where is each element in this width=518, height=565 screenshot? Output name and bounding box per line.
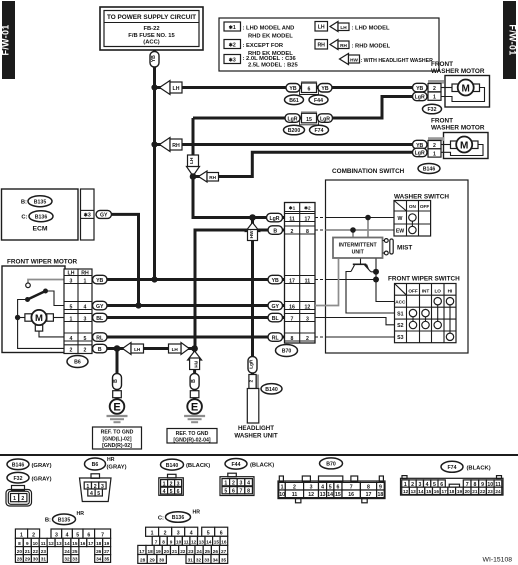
- wire RH row to front washer motor 2: [155, 143, 442, 146]
- wire YB row to front washer motor 1: [155, 86, 442, 89]
- svg-text:REF. TO GND: REF. TO GND: [176, 431, 209, 437]
- svg-text:1: 1: [70, 316, 73, 322]
- connector oval B146 (washer motor 2): [418, 164, 440, 174]
- arrow LH pointing left on ground row: [123, 343, 144, 355]
- svg-text:LH: LH: [172, 347, 179, 352]
- svg-text:FB-22: FB-22: [143, 26, 159, 32]
- svg-text:3: 3: [240, 481, 243, 487]
- svg-text:OFF: OFF: [408, 288, 418, 293]
- svg-text:OFF: OFF: [420, 204, 430, 209]
- svg-text:16: 16: [221, 540, 227, 545]
- connector drawing F32/B146 2-pin: [6, 486, 32, 507]
- connector oval B200: [284, 125, 305, 135]
- pin box right ground: [190, 391, 199, 398]
- svg-text:LgR: LgR: [320, 116, 330, 122]
- arrow RH at second row: [160, 138, 171, 152]
- page corner tab left F/W-01: [1, 1, 15, 79]
- svg-text:HEADLIGHT: HEADLIGHT: [238, 425, 274, 432]
- svg-text:4: 4: [84, 304, 87, 310]
- svg-text:LO: LO: [434, 288, 441, 293]
- wiper park switch YB stub: [28, 280, 64, 284]
- svg-text:M: M: [35, 313, 43, 324]
- svg-text:RH: RH: [81, 270, 89, 276]
- svg-text:FRONT: FRONT: [431, 118, 453, 125]
- washer switch table: [394, 194, 449, 237]
- svg-text:B6: B6: [92, 462, 99, 468]
- svg-text:27: 27: [104, 549, 110, 554]
- junction transistor emitter: [373, 269, 379, 275]
- svg-text:6: 6: [177, 489, 180, 495]
- combination switch wire labels: [267, 213, 283, 222]
- connector oval F32 (gray): [7, 472, 29, 483]
- svg-text:1: 1: [224, 481, 227, 487]
- svg-text:HI: HI: [448, 288, 453, 293]
- svg-text:LgR: LgR: [249, 359, 254, 369]
- svg-text:20: 20: [164, 549, 170, 554]
- svg-text:31: 31: [41, 557, 47, 562]
- junction at RH arrow: [151, 141, 157, 147]
- svg-text:25: 25: [205, 549, 211, 554]
- svg-text:30: 30: [33, 557, 39, 562]
- svg-text:B: B: [273, 228, 277, 234]
- svg-text:WASHER MOTOR: WASHER MOTOR: [431, 68, 485, 75]
- svg-text:4: 4: [163, 489, 166, 495]
- washer motor 2 pins YB 2 / LgR 1: [413, 137, 445, 157]
- svg-text:2: 2: [21, 496, 24, 502]
- svg-text:29: 29: [149, 558, 155, 563]
- svg-text:15: 15: [335, 492, 341, 498]
- svg-text:LH: LH: [173, 86, 180, 92]
- svg-text:2: 2: [249, 379, 254, 382]
- svg-text:2: 2: [84, 348, 87, 354]
- front wiper switch table: [388, 276, 460, 343]
- svg-text:: 2.0L MODEL : C36: : 2.0L MODEL : C36: [243, 56, 297, 62]
- washer motor 1 pins YB 2 / LgR 1: [413, 80, 445, 101]
- power supply block FB-22 F/B FUSE NO.15 (ACC): [100, 7, 203, 50]
- svg-text:F44: F44: [232, 462, 241, 468]
- ground symbol E right: [184, 399, 205, 422]
- arrow RH pointing left at junction: [199, 171, 219, 182]
- svg-text:S2: S2: [397, 323, 403, 329]
- svg-text:F32: F32: [14, 476, 23, 482]
- svg-text:B136: B136: [35, 214, 48, 220]
- wire collector to ACC row: [376, 259, 395, 302]
- svg-text:F/W-01: F/W-01: [508, 24, 518, 55]
- svg-text:7: 7: [101, 533, 104, 539]
- svg-text:B146: B146: [12, 463, 25, 469]
- svg-text:3: 3: [177, 531, 180, 537]
- wire junction down and right to combination switch LgR pin: [193, 177, 285, 218]
- svg-text:C:: C:: [21, 215, 27, 221]
- svg-text:ECM: ECM: [32, 226, 47, 233]
- svg-text:35: 35: [104, 557, 110, 562]
- svg-text:S1: S1: [397, 311, 403, 317]
- svg-text:7: 7: [240, 489, 243, 495]
- svg-text:COMBINATION SWITCH: COMBINATION SWITCH: [332, 168, 405, 175]
- svg-text:ACC: ACC: [395, 299, 406, 304]
- svg-text:B61: B61: [289, 98, 299, 104]
- headlight washer unit box: [247, 389, 258, 424]
- wire right ground drop: [193, 349, 196, 401]
- svg-text:16: 16: [434, 489, 440, 494]
- svg-text:MIST: MIST: [397, 245, 412, 252]
- svg-text:23: 23: [188, 549, 194, 554]
- svg-text:HR: HR: [193, 510, 201, 516]
- svg-text:7: 7: [291, 316, 294, 322]
- svg-text:LH: LH: [68, 270, 75, 276]
- svg-text:2: 2: [32, 533, 35, 539]
- svg-text:17: 17: [305, 216, 311, 222]
- svg-text:FRONT WIPER MOTOR: FRONT WIPER MOTOR: [7, 259, 78, 266]
- junction LgR LH/RH: [190, 173, 197, 180]
- pin box headlight washer with number 2: [249, 375, 259, 389]
- svg-text:LH: LH: [340, 25, 347, 30]
- legend mark *3: [224, 55, 241, 64]
- svg-text:B:: B:: [45, 518, 51, 524]
- svg-text:5: 5: [170, 489, 173, 495]
- svg-text:14: 14: [64, 541, 70, 546]
- MIST switch: [383, 239, 413, 255]
- inline connector YB 6 YB (B61/F44): [286, 81, 332, 95]
- legend LH connector symbol: [315, 22, 328, 32]
- svg-text:35: 35: [221, 558, 227, 563]
- wire ECM GY to GY row: [112, 214, 139, 305]
- svg-text:BL: BL: [96, 316, 104, 322]
- label YB on bus: [150, 52, 159, 68]
- svg-text:: LHD MODEL AND: : LHD MODEL AND: [243, 26, 295, 32]
- svg-text:8: 8: [291, 336, 294, 342]
- arrow RH pointing up below right junction: [188, 351, 202, 370]
- svg-text:3: 3: [84, 316, 87, 322]
- front washer motor 1 box: [441, 76, 490, 108]
- svg-text:RHD EK MODEL: RHD EK MODEL: [248, 34, 293, 40]
- svg-text:6: 6: [87, 533, 90, 539]
- svg-text:15: 15: [72, 541, 78, 546]
- connector oval B6 (gray) HR: [85, 458, 106, 470]
- svg-text:LH: LH: [134, 347, 141, 352]
- svg-text:[GND(L)-02]: [GND(L)-02]: [102, 436, 131, 442]
- svg-text:YB: YB: [151, 55, 157, 62]
- junction ground bus left: [114, 345, 121, 352]
- combination switch box: [326, 180, 469, 353]
- svg-text:[GND(R)-02-04]: [GND(R)-02-04]: [173, 438, 210, 444]
- svg-text:8: 8: [247, 489, 250, 495]
- svg-text:18: 18: [96, 541, 102, 546]
- svg-text:11: 11: [41, 541, 46, 546]
- arrow HW pointing up below junction: [246, 223, 260, 241]
- svg-text:BL: BL: [272, 316, 280, 322]
- svg-text:M: M: [462, 83, 470, 94]
- svg-text:2: 2: [433, 86, 436, 92]
- svg-text:28: 28: [17, 557, 23, 562]
- svg-text:26: 26: [213, 549, 219, 554]
- svg-text:5: 5: [224, 489, 227, 495]
- svg-text:33: 33: [204, 558, 210, 563]
- svg-text:6: 6: [308, 87, 311, 93]
- svg-text:14: 14: [418, 489, 424, 494]
- wire headlight washer branch: [251, 218, 254, 391]
- svg-text:10: 10: [279, 492, 285, 498]
- svg-text:3: 3: [306, 316, 309, 322]
- svg-text:19: 19: [104, 541, 110, 546]
- svg-text:[GND(R)-02]: [GND(R)-02]: [102, 443, 132, 449]
- svg-text:✱1: ✱1: [289, 206, 296, 211]
- transistor in combination switch: [346, 259, 395, 314]
- svg-text:10: 10: [176, 540, 182, 545]
- svg-text:1: 1: [433, 151, 436, 157]
- legend mark *1: [224, 22, 241, 31]
- svg-text:✱2: ✱2: [229, 43, 236, 49]
- connector oval F74: [310, 125, 329, 135]
- connector oval F44: [309, 95, 328, 105]
- svg-text:1: 1: [84, 278, 87, 284]
- wire RL pin to S3: [315, 336, 395, 338]
- svg-text:13: 13: [320, 492, 326, 498]
- svg-text:F32: F32: [428, 107, 437, 113]
- svg-text:: WITH HEADLIGHT WASHER: : WITH HEADLIGHT WASHER: [361, 58, 434, 64]
- connector oval B61: [285, 95, 304, 105]
- wire LgR row B200/F74 to washer motor 1 pin 1: [193, 97, 441, 119]
- ref to gnd box right: [167, 429, 217, 444]
- svg-text:4: 4: [70, 336, 73, 342]
- wire YB pin to transistor node: [315, 277, 379, 283]
- label GY at ECM pin: [96, 210, 112, 218]
- svg-text:LgR: LgR: [415, 95, 425, 101]
- svg-text:18: 18: [378, 492, 384, 498]
- legend RH connector symbol: [315, 40, 328, 50]
- svg-text:WASHER SWITCH: WASHER SWITCH: [394, 194, 449, 201]
- svg-text:M: M: [460, 140, 468, 151]
- svg-text:F74: F74: [315, 128, 324, 134]
- svg-text:2: 2: [306, 336, 309, 342]
- svg-text:1: 1: [433, 95, 436, 101]
- svg-text:INTERMITTENT: INTERMITTENT: [339, 242, 378, 248]
- svg-text:B6: B6: [74, 360, 81, 366]
- svg-text:RH: RH: [317, 43, 325, 49]
- svg-text:6: 6: [220, 531, 223, 537]
- svg-text:LH: LH: [189, 157, 194, 164]
- svg-text:5: 5: [76, 533, 79, 539]
- svg-text:21: 21: [25, 549, 31, 554]
- ground symbol E left: [107, 399, 128, 422]
- wire LgR pin to washer switch W: [315, 215, 395, 238]
- svg-text:F44: F44: [314, 98, 323, 104]
- svg-text:HW: HW: [350, 57, 358, 62]
- svg-text:LgR: LgR: [269, 216, 279, 222]
- svg-text:✱1: ✱1: [229, 25, 236, 31]
- svg-text:(BLACK): (BLACK): [467, 466, 491, 472]
- svg-text:11: 11: [292, 492, 298, 498]
- connector oval F74 (black): [441, 461, 463, 472]
- svg-text:F/B FUSE NO. 15: F/B FUSE NO. 15: [128, 33, 175, 39]
- svg-text:B70: B70: [326, 462, 336, 468]
- svg-text:21: 21: [172, 549, 178, 554]
- connector oval B140 (black): [161, 459, 184, 470]
- svg-text:3: 3: [55, 533, 58, 539]
- svg-text:12: 12: [308, 492, 314, 498]
- svg-text:✱3: ✱3: [84, 212, 91, 218]
- svg-text:B:: B:: [21, 200, 27, 206]
- svg-text:12: 12: [191, 540, 197, 545]
- svg-text:33: 33: [72, 557, 78, 562]
- svg-text:B: B: [98, 347, 102, 353]
- svg-text:2: 2: [232, 481, 235, 487]
- svg-text:GY: GY: [271, 304, 279, 310]
- connector oval B146 (gray): [7, 459, 29, 470]
- svg-text:✱2: ✱2: [304, 206, 311, 211]
- junction ground bus right: [191, 345, 198, 352]
- wiper motor connector strip LH/RH: [64, 269, 92, 354]
- svg-text:GY: GY: [100, 213, 108, 219]
- svg-text:UNIT: UNIT: [352, 250, 365, 256]
- svg-text:7: 7: [155, 540, 158, 545]
- svg-text:B135: B135: [34, 199, 47, 205]
- svg-text:26: 26: [96, 549, 102, 554]
- connector oval B70 (combination switch): [276, 345, 298, 357]
- junction at LH arrow: [151, 84, 157, 90]
- svg-text:10: 10: [33, 541, 39, 546]
- svg-text:24: 24: [64, 549, 70, 554]
- label B rotated right ground: [190, 374, 199, 390]
- svg-text:5: 5: [84, 336, 87, 342]
- svg-text:17: 17: [139, 549, 145, 554]
- svg-text:19: 19: [457, 489, 463, 494]
- svg-text:32: 32: [64, 557, 70, 562]
- svg-text:16: 16: [289, 304, 295, 310]
- svg-text:WASHER UNIT: WASHER UNIT: [234, 432, 278, 439]
- legend box: [219, 18, 439, 71]
- wire RL row: [100, 336, 285, 339]
- svg-text:14: 14: [327, 492, 333, 498]
- svg-text:(GRAY): (GRAY): [32, 463, 52, 469]
- svg-text:LgR: LgR: [287, 116, 297, 122]
- svg-text:24: 24: [196, 549, 202, 554]
- svg-text:2: 2: [170, 481, 173, 487]
- ref to gnd box left: [93, 427, 142, 449]
- svg-text:5: 5: [97, 491, 100, 497]
- connector drawing B140 6-pin: [159, 474, 184, 495]
- svg-text:YB: YB: [96, 278, 103, 284]
- svg-text:EW: EW: [396, 229, 404, 235]
- junction wiper motor common: [15, 315, 20, 320]
- svg-text:18: 18: [147, 549, 153, 554]
- svg-text:34: 34: [96, 557, 102, 562]
- svg-text:22: 22: [480, 489, 486, 494]
- separator line above connector list: [0, 454, 518, 456]
- wiper motor wire labels: [93, 275, 108, 284]
- svg-text:(ACC): (ACC): [143, 40, 159, 46]
- svg-text:1: 1: [151, 531, 154, 537]
- svg-text:32: 32: [196, 558, 202, 563]
- svg-text:23: 23: [488, 489, 494, 494]
- svg-text:5: 5: [70, 304, 73, 310]
- wire B pin to washer switch EW: [315, 227, 395, 237]
- svg-text:HR: HR: [107, 457, 115, 463]
- svg-text:13: 13: [56, 541, 62, 546]
- svg-text:B140: B140: [166, 463, 179, 469]
- svg-text:: EXCEPT FOR: : EXCEPT FOR: [243, 43, 284, 49]
- pin box left ground: [113, 391, 122, 398]
- svg-text:WI-15108: WI-15108: [483, 557, 513, 564]
- wire GY row: [100, 304, 285, 307]
- svg-text:B136: B136: [172, 515, 185, 521]
- svg-text:C:: C:: [158, 516, 164, 522]
- svg-text:INT: INT: [422, 288, 430, 293]
- svg-text:YB: YB: [272, 278, 279, 284]
- wiper park NC to GY pin: [46, 291, 65, 306]
- svg-text:15: 15: [426, 489, 432, 494]
- svg-text:HR: HR: [77, 511, 85, 517]
- wire washer motor 2 pin 1 to RH arrow: [193, 152, 441, 176]
- junction HW branch: [249, 214, 256, 221]
- connector oval B6: [67, 356, 88, 368]
- svg-text:B140: B140: [265, 387, 278, 393]
- connector drawing F74 24-pin: [401, 476, 504, 495]
- ECM connector strip with pin *3: [81, 189, 95, 240]
- svg-text:30: 30: [159, 558, 165, 563]
- svg-text:YB: YB: [321, 86, 328, 92]
- svg-text:17: 17: [366, 492, 372, 498]
- connector drawing B136 35-pin: [138, 527, 228, 563]
- svg-text:11: 11: [184, 540, 189, 545]
- svg-text:6: 6: [232, 489, 235, 495]
- svg-text:22: 22: [33, 549, 39, 554]
- svg-text:(GRAY): (GRAY): [107, 465, 127, 471]
- inline connector LgR 15 LgR (B200/F74): [285, 111, 333, 125]
- combination switch connector strip *1/*2: [285, 203, 316, 344]
- svg-text:1: 1: [20, 533, 23, 539]
- svg-text:20: 20: [465, 489, 471, 494]
- connector drawing B135 35-pin: [15, 529, 110, 562]
- svg-text:GY: GY: [96, 304, 104, 310]
- svg-text:4: 4: [247, 481, 250, 487]
- svg-text:2.5L MODEL : B25: 2.5L MODEL : B25: [248, 63, 298, 69]
- wire BL row: [100, 316, 285, 319]
- wire BL pin to S2: [315, 318, 395, 325]
- svg-text:5: 5: [207, 531, 210, 537]
- wire main ACC bus vertical: [153, 50, 156, 280]
- svg-text:F74: F74: [448, 465, 457, 471]
- svg-text:ON: ON: [409, 204, 417, 209]
- svg-text:B: B: [191, 379, 197, 383]
- svg-text:17: 17: [441, 489, 447, 494]
- svg-text:RH: RH: [172, 143, 180, 149]
- svg-text:20: 20: [17, 549, 23, 554]
- svg-text:B135: B135: [58, 518, 71, 524]
- svg-text:B: B: [113, 379, 119, 383]
- svg-text:8: 8: [18, 541, 21, 546]
- svg-text:W: W: [398, 216, 403, 222]
- svg-text:13: 13: [411, 489, 417, 494]
- svg-text:31: 31: [188, 558, 194, 563]
- svg-text:24: 24: [495, 489, 501, 494]
- arrow LH pointing down on LgR branch: [187, 155, 200, 176]
- svg-text:YB: YB: [416, 86, 423, 92]
- wire B ground row: [100, 347, 195, 350]
- svg-text:REF. TO GND: REF. TO GND: [101, 430, 134, 436]
- svg-text:1: 1: [13, 496, 16, 502]
- connector oval F44 (black): [225, 459, 247, 470]
- svg-text:WASHER MOTOR: WASHER MOTOR: [431, 125, 485, 132]
- svg-text:11: 11: [289, 216, 295, 222]
- front washer motor 2 box: [441, 133, 488, 159]
- legend mark *2: [224, 40, 241, 49]
- svg-text:14: 14: [206, 540, 212, 545]
- svg-text:2: 2: [433, 143, 436, 149]
- svg-text:(GRAY): (GRAY): [32, 476, 52, 482]
- svg-text:9: 9: [26, 541, 29, 546]
- svg-text:RH: RH: [193, 361, 198, 368]
